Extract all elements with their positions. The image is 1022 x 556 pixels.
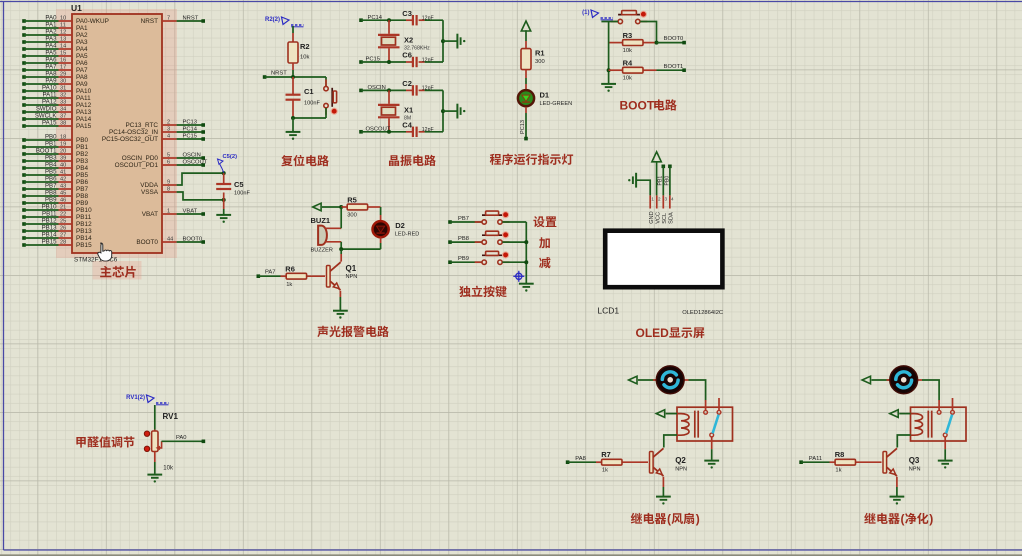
wire emitter to ground Q2: [662, 477, 664, 487]
wire R1 to D1: [525, 70, 527, 78]
capacitor C6 pins: [406, 61, 413, 63]
pin VBAT (1) wire: [162, 213, 177, 215]
svg-text:46: 46: [60, 198, 66, 204]
svg-text:PB8: PB8: [458, 236, 469, 242]
wire VDDA to C5 top node: [177, 173, 224, 185]
svg-text:1: 1: [651, 197, 654, 202]
chip U1 body: [72, 14, 162, 253]
terminal PA8: [566, 460, 570, 464]
wire button to bottom node: [325, 108, 327, 118]
svg-text:PB10: PB10: [76, 207, 92, 214]
button PB7: [475, 221, 483, 223]
capacitor C4: [413, 127, 417, 137]
U1 selection halo: [56, 9, 177, 258]
OLED pins: [649, 195, 651, 208]
svg-text:PA9: PA9: [45, 78, 57, 85]
svg-text:C1: C1: [304, 87, 314, 96]
svg-text:BOOT0: BOOT0: [136, 239, 158, 246]
power arrow indicator: [521, 21, 530, 31]
svg-text:PC14: PC14: [183, 127, 198, 133]
svg-text:PB4: PB4: [76, 165, 89, 172]
svg-text:): ): [929, 512, 933, 526]
svg-text:Q3: Q3: [909, 456, 920, 465]
svg-text:PA0-WKUP: PA0-WKUP: [76, 18, 109, 25]
label 程序运行指示灯: [490, 154, 501, 165]
svg-text:PB5: PB5: [76, 172, 89, 179]
label 主芯片 halo: [93, 261, 142, 280]
wire BOOT0: [657, 42, 685, 44]
svg-text:PA6: PA6: [76, 60, 88, 67]
svg-text:PC15: PC15: [183, 134, 198, 140]
svg-text:19: 19: [60, 142, 66, 148]
svg-text:BUZZER: BUZZER: [311, 248, 333, 254]
capacitor C3: [413, 15, 417, 25]
capacitor C3 pins: [406, 19, 413, 21]
terminal PA11: [799, 460, 803, 464]
pin PB8 (45) wire: [22, 194, 26, 198]
svg-text:PB12: PB12: [42, 218, 58, 225]
svg-text:PA1: PA1: [45, 22, 57, 29]
svg-text:PB15: PB15: [42, 239, 58, 246]
junction C1 bottom: [291, 116, 295, 120]
svg-text:PA15: PA15: [42, 120, 57, 127]
svg-text:12: 12: [60, 30, 66, 36]
junction collector node: [339, 247, 343, 251]
svg-text:): ): [696, 512, 700, 526]
svg-text:PB13: PB13: [76, 228, 92, 235]
svg-text:26: 26: [60, 226, 66, 232]
svg-text:LCD1: LCD1: [597, 306, 619, 316]
svg-text:PB7: PB7: [458, 216, 469, 222]
svg-text:(: (: [901, 512, 905, 526]
svg-text:RV1(2): RV1(2): [126, 395, 145, 401]
svg-text:PA8: PA8: [575, 456, 586, 462]
junction bus PB8: [524, 240, 528, 244]
pin PA1 (11) wire: [22, 26, 26, 30]
svg-text:PB9: PB9: [458, 256, 469, 262]
label 晶振电路: [389, 155, 399, 166]
svg-text:OLED12864I2C: OLED12864I2C: [682, 310, 723, 316]
wire PA11 to base resistor: [801, 461, 829, 463]
pin BOOT0 (44) wire: [162, 241, 177, 243]
wire R2 to NRST node: [292, 63, 294, 70]
svg-text:2: 2: [167, 120, 170, 126]
resistor R2: [288, 42, 298, 63]
svg-text:41: 41: [60, 170, 66, 176]
svg-text:21: 21: [60, 205, 66, 211]
resistor R8: [835, 459, 855, 465]
pin PA10 (31) wire: [22, 89, 26, 93]
svg-text:BOOT0: BOOT0: [183, 237, 203, 243]
svg-text:PB0: PB0: [664, 176, 670, 186]
svg-text:R4: R4: [623, 59, 633, 68]
pin PB13 (26) wire: [22, 229, 26, 233]
svg-text:9: 9: [167, 180, 170, 186]
capacitor C2: [413, 85, 417, 95]
svg-text:10k: 10k: [623, 48, 632, 54]
mouse cursor: [98, 243, 112, 261]
capacitor C6: [413, 57, 417, 67]
junction R5/buzzer: [339, 205, 343, 209]
svg-text:PB6: PB6: [76, 179, 89, 186]
svg-text:1k: 1k: [835, 468, 841, 474]
svg-text:C5(2): C5(2): [223, 154, 238, 160]
svg-text:PA10: PA10: [42, 85, 57, 92]
capacitor C5 pins: [223, 173, 225, 184]
pin PA12 (33) wire: [22, 103, 26, 107]
RV1 wiper: [158, 441, 161, 448]
svg-text:32: 32: [60, 93, 66, 99]
resistor R5: [347, 204, 367, 210]
button BOOT: [611, 21, 619, 23]
crystal X2: [388, 20, 390, 34]
svg-text:BOOT: BOOT: [620, 99, 655, 113]
svg-text:PA2: PA2: [76, 32, 88, 39]
svg-text:PC13: PC13: [520, 120, 526, 134]
svg-text:10k: 10k: [163, 466, 174, 472]
wire button PB8 to bus: [502, 241, 526, 243]
svg-text:R5: R5: [347, 195, 357, 204]
svg-text:PA13: PA13: [76, 109, 92, 116]
wire power to motor: [872, 379, 890, 381]
svg-text:OSCIN_PD0: OSCIN_PD0: [122, 155, 159, 162]
svg-text:(1): (1): [582, 10, 589, 16]
svg-text:BOOT1: BOOT1: [36, 148, 57, 155]
svg-text:PA11: PA11: [809, 456, 822, 462]
svg-text:NPN: NPN: [675, 467, 687, 473]
wire motor to relay contact: [689, 380, 706, 400]
pin PB10 (21) wire: [22, 208, 26, 212]
pin OSCIN_PD0 (5) wire: [162, 157, 177, 159]
svg-text:4: 4: [167, 134, 170, 140]
pin PA9 (30) wire: [22, 82, 26, 86]
red dot RV1 down: [144, 446, 149, 451]
svg-text:10: 10: [60, 16, 66, 22]
svg-text:VDDA: VDDA: [140, 182, 158, 189]
power arrow motor Q2: [629, 376, 637, 384]
svg-text:PB7: PB7: [76, 186, 89, 193]
pin PA11 (32) wire: [22, 96, 26, 100]
svg-text:PB8: PB8: [45, 190, 57, 197]
resistor R5 pins: [341, 206, 347, 208]
resistor R7 pins: [596, 461, 602, 463]
pin PB4 (40) wire: [22, 166, 26, 170]
junction OSCIN/crystal: [387, 88, 391, 92]
svg-text:PA0: PA0: [45, 15, 57, 22]
svg-text:PA2: PA2: [45, 29, 57, 36]
wire C2 to right bus: [425, 89, 443, 91]
svg-text:C6: C6: [402, 51, 412, 60]
terminal PB8: [448, 240, 452, 244]
svg-text:1: 1: [167, 209, 170, 215]
svg-text:PA5: PA5: [76, 53, 88, 60]
svg-text:3: 3: [167, 127, 170, 133]
svg-text:PB0: PB0: [76, 137, 89, 144]
wire VSSA to C5 bottom node: [177, 192, 224, 200]
svg-text:100nF: 100nF: [234, 191, 250, 197]
svg-text:LED-RED: LED-RED: [395, 232, 420, 238]
svg-text:SDA: SDA: [668, 212, 674, 224]
svg-text:PB11: PB11: [76, 214, 92, 221]
svg-text:R1: R1: [535, 49, 545, 58]
wire button PB9 to bus: [502, 261, 526, 263]
svg-text:NPN: NPN: [346, 274, 358, 280]
svg-text:10k: 10k: [623, 76, 632, 82]
svg-text:PA8: PA8: [76, 74, 88, 81]
wire coil bottom to collector: [664, 435, 677, 448]
svg-text:37: 37: [60, 114, 66, 120]
svg-text:PB5: PB5: [45, 169, 57, 176]
resistor RV1 body: [152, 431, 158, 452]
transistor Q3: [883, 452, 887, 474]
relay RL1: [677, 407, 733, 441]
svg-text:38: 38: [60, 121, 66, 127]
svg-text:7: 7: [167, 16, 170, 22]
svg-text:PB7: PB7: [45, 183, 57, 190]
blue origin marker: [513, 271, 524, 282]
svg-text:PB3: PB3: [45, 155, 57, 162]
label 甲醛值调节: [76, 437, 85, 448]
node OSCOUT wire: [359, 130, 363, 134]
resistor R7: [602, 459, 622, 465]
svg-text:PA11: PA11: [76, 95, 91, 102]
junction PC14/crystal: [387, 18, 391, 22]
svg-text:1k: 1k: [286, 282, 292, 288]
node OSCIN wire: [359, 89, 363, 93]
transistor Q1: [327, 266, 331, 288]
svg-text:SWDIO: SWDIO: [36, 106, 57, 113]
wire button left to R3 row: [601, 21, 618, 23]
label 继电器(风扇): [631, 513, 642, 524]
pin PC13_RTC (2) wire: [162, 124, 177, 126]
svg-text:PA0: PA0: [176, 435, 187, 441]
svg-text:PA1: PA1: [76, 25, 88, 32]
wire BOOT1: [657, 69, 685, 71]
wire buzzer bottom to collector node: [340, 242, 342, 249]
pin PB2 (20) wire: [22, 152, 26, 156]
svg-text:(: (: [667, 512, 671, 526]
ground relay contact: [938, 461, 953, 464]
svg-text:31: 31: [60, 86, 66, 92]
label 声光报警电路: [317, 326, 328, 337]
svg-text:2: 2: [658, 197, 661, 202]
svg-text:BOOT1: BOOT1: [664, 64, 684, 70]
svg-text:PB1: PB1: [76, 144, 89, 151]
wire power to R5 node: [322, 206, 341, 208]
svg-text:PA3: PA3: [45, 36, 57, 43]
resistor R1: [521, 49, 531, 70]
svg-text:PA6: PA6: [45, 57, 57, 64]
wire RV1 to ground: [154, 452, 156, 463]
wire left bus down: [608, 39, 610, 83]
pin PA4 (14) wire: [22, 47, 26, 51]
svg-text:6: 6: [167, 160, 170, 166]
pin PA8 (29) wire: [22, 75, 26, 79]
label 加: [539, 237, 550, 248]
wire emitter to ground Q3: [896, 477, 898, 487]
svg-text:4: 4: [671, 197, 674, 202]
svg-text:C3: C3: [402, 9, 412, 18]
pin PB12 (25) wire: [22, 222, 26, 226]
svg-text:SCL: SCL: [662, 213, 668, 224]
svg-text:R2: R2: [300, 42, 310, 51]
junction right bus: [441, 39, 445, 43]
capacitor C4 pins: [406, 131, 413, 133]
power arrow relay coil: [656, 410, 664, 418]
wire emitter to ground: [339, 291, 341, 297]
svg-text:NRST: NRST: [141, 18, 158, 25]
wire collector: [340, 249, 342, 254]
svg-text:PB14: PB14: [76, 235, 92, 242]
svg-text:R6: R6: [285, 264, 295, 273]
ground crystal: [457, 34, 460, 49]
LCD1 OLED display body: [605, 231, 722, 288]
power arrow relay coil: [890, 410, 898, 418]
svg-text:PA7: PA7: [76, 67, 88, 74]
wire relay pivot to ground: [944, 449, 946, 460]
terminal BOOT0: [682, 41, 686, 45]
ground Q2 emitter: [656, 497, 671, 500]
pin PC15-OSC32_OUT (4) wire: [162, 138, 177, 140]
svg-text:Q1: Q1: [346, 264, 357, 273]
pin NRST (7) wire: [162, 20, 177, 22]
wire PA7 to R6: [258, 275, 280, 277]
pin PA6 (16) wire: [22, 61, 26, 65]
svg-text:D2: D2: [395, 221, 405, 230]
resistor R3 pins: [609, 42, 623, 44]
pin PA15 (38) wire: [22, 124, 26, 128]
wire C4 to right bus: [425, 131, 443, 133]
node NRST wire: [263, 75, 267, 79]
node PC14 wire: [359, 18, 363, 22]
svg-text:NRST: NRST: [183, 16, 199, 22]
capacitor C2 pins: [406, 89, 413, 91]
wire C3 to right bus: [425, 19, 443, 21]
svg-text:PA15: PA15: [76, 123, 92, 130]
svg-text:29: 29: [60, 72, 66, 78]
svg-text:BOOT0: BOOT0: [664, 36, 684, 42]
svg-text:PB14: PB14: [42, 232, 58, 239]
svg-text:R3: R3: [623, 31, 633, 40]
svg-text:PB1: PB1: [658, 176, 664, 186]
LED D1: [518, 90, 534, 106]
pin PA2 (12) wire: [22, 33, 26, 37]
svg-text:PA3: PA3: [76, 39, 88, 46]
ground alarm: [333, 311, 348, 314]
capacitor C1 pins: [292, 77, 294, 95]
wire bus to ground: [443, 110, 457, 112]
red dot RV1 up: [144, 431, 149, 436]
wire power to coil top: [666, 413, 677, 415]
buzzer BUZ1: [318, 226, 327, 245]
terminal PB9: [448, 260, 452, 264]
crystal X1: [388, 90, 390, 103]
svg-text:VCC: VCC: [655, 212, 661, 224]
svg-text:3: 3: [665, 197, 668, 202]
wire power to VCC pin: [656, 161, 658, 195]
LED D2: [373, 221, 389, 237]
terminal PB7: [448, 220, 452, 224]
svg-text:43: 43: [60, 184, 66, 190]
resistor R4: [623, 67, 643, 73]
svg-text:PC14-OSC32_IN: PC14-OSC32_IN: [109, 129, 158, 136]
junction R4 left: [607, 68, 611, 72]
svg-text:34: 34: [60, 107, 66, 113]
resistor R6 pins: [281, 275, 287, 277]
pin PA13 (34) wire: [22, 110, 26, 114]
buzzer BUZ1 pins: [325, 227, 341, 229]
ground reset circuit: [286, 132, 301, 135]
wire power to R1: [525, 30, 527, 41]
wire PB9 to button: [450, 261, 482, 263]
svg-text:13: 13: [60, 37, 66, 43]
svg-text:22: 22: [60, 212, 66, 218]
svg-text:18: 18: [60, 135, 66, 141]
svg-text:OSCIN: OSCIN: [183, 153, 201, 159]
terminal PA7: [257, 274, 261, 278]
pin PA0-WKUP (10) wire: [22, 19, 26, 23]
node C5 top junction: [222, 171, 226, 175]
wire D1 to PC13 terminal: [525, 107, 527, 113]
label 减: [539, 257, 550, 268]
pin PB6 (42) wire: [22, 180, 26, 184]
wire top to RV1: [154, 405, 156, 430]
wire motor to relay contact: [922, 380, 939, 400]
svg-text:OSCIN: OSCIN: [368, 85, 386, 91]
ground relay contact: [704, 461, 719, 464]
capacitor C1: [286, 95, 301, 100]
svg-text:15: 15: [60, 51, 66, 57]
pin PB3 (39) wire: [22, 159, 26, 163]
pin PB7 (43) wire: [22, 187, 26, 191]
svg-text:PA11: PA11: [42, 92, 57, 99]
svg-text:30: 30: [60, 79, 66, 85]
junction right bus: [441, 109, 445, 113]
svg-text:300: 300: [535, 59, 545, 65]
svg-text:D1: D1: [540, 91, 550, 100]
pin PA5 (15) wire: [22, 54, 26, 58]
terminal SDA top: [668, 165, 672, 169]
pin PB1 (19) wire: [22, 145, 26, 149]
svg-text:PB1: PB1: [45, 141, 57, 148]
node C5 bottom junction: [222, 198, 226, 202]
svg-text:11: 11: [60, 23, 66, 29]
wire SCL: [662, 166, 664, 195]
power arrow motor Q3: [862, 376, 870, 384]
wire power to motor: [638, 379, 656, 381]
svg-text:PB8: PB8: [76, 193, 89, 200]
svg-text:VBAT: VBAT: [142, 211, 158, 218]
junction OSCOUT/crystal: [387, 130, 391, 134]
wire coil bottom to collector: [897, 435, 910, 448]
svg-text:R7: R7: [601, 450, 611, 459]
junction BOOT0: [655, 41, 659, 45]
bus wire buttons: [525, 222, 527, 283]
wire PA8 to base resistor: [568, 461, 596, 463]
pin PC14-OSC32_IN (3) wire: [162, 131, 177, 133]
pin PB14 (27) wire: [22, 236, 26, 240]
wire wiper to PA0: [162, 440, 204, 442]
resistor R3: [623, 40, 643, 46]
power arrow OLED: [652, 152, 661, 162]
wire C6 to right bus: [425, 61, 443, 63]
svg-text:27: 27: [60, 233, 66, 239]
svg-text:NPN: NPN: [909, 467, 921, 473]
junction R2/C1: [291, 75, 295, 79]
junction bus PB9: [524, 260, 528, 264]
button PB9: [475, 261, 483, 263]
wire button right to BOOT0 node: [640, 22, 656, 43]
